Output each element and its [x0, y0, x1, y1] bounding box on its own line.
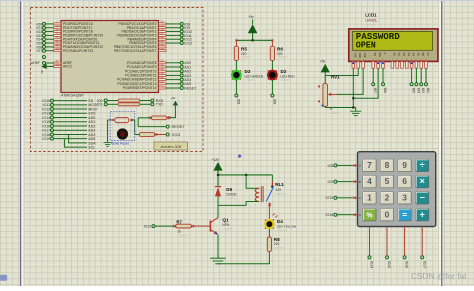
svg-text:RS: RS: [373, 53, 376, 57]
svg-text:<TEXT>: <TEXT>: [178, 234, 189, 238]
svg-text:RV1: RV1: [331, 75, 340, 80]
svg-text:<TEXT>: <TEXT>: [365, 23, 376, 27]
svg-text:Q1: Q1: [222, 217, 229, 222]
svg-text:<TEXT>: <TEXT>: [275, 192, 286, 196]
svg-text:8: 8: [385, 160, 390, 170]
svg-text:1k: 1k: [329, 107, 333, 111]
svg-text:÷: ÷: [420, 160, 425, 170]
svg-text:D3: D3: [245, 69, 251, 74]
svg-text:IO7: IO7: [373, 88, 377, 94]
svg-text:IO7: IO7: [37, 49, 43, 53]
svg-text:D2: D2: [281, 69, 287, 74]
svg-text:R6: R6: [277, 46, 283, 51]
svg-text:CSDN @for fat: CSDN @for fat: [411, 271, 467, 281]
svg-text:RW: RW: [378, 53, 381, 58]
svg-text:+5v: +5v: [320, 59, 326, 63]
svg-text:+12V: +12V: [212, 158, 220, 162]
svg-text:IO9: IO9: [237, 99, 241, 105]
svg-text:IO18: IO18: [326, 213, 334, 217]
svg-text:<TEXT>: <TEXT>: [281, 78, 292, 82]
svg-text:AVCC: AVCC: [63, 64, 73, 68]
svg-text:IO2: IO2: [426, 88, 430, 94]
svg-text:<TEXT>: <TEXT>: [274, 246, 285, 250]
svg-text:TXD: TXD: [156, 103, 164, 107]
svg-text:4: 4: [367, 176, 372, 186]
svg-text:C: C: [359, 196, 361, 200]
svg-text:D5: D5: [226, 187, 232, 192]
svg-text:RESET: RESET: [172, 124, 186, 129]
svg-text:PB7/TOSC2/XTAL2/PCINT7: PB7/TOSC2/XTAL2/PCINT7: [114, 49, 157, 53]
svg-text:ATMEGA328P: ATMEGA328P: [61, 94, 84, 98]
svg-text:<TEXT>: <TEXT>: [245, 78, 256, 82]
svg-text:<TEXT>: <TEXT>: [277, 229, 288, 233]
svg-text:VSS: VSS: [353, 53, 356, 58]
svg-text:Arduino 328: Arduino 328: [161, 145, 181, 149]
svg-text:+5v: +5v: [171, 96, 176, 100]
svg-text:6: 6: [402, 176, 407, 186]
svg-text:%: %: [366, 212, 373, 219]
svg-text:1: 1: [367, 192, 372, 202]
svg-text:D4: D4: [277, 219, 283, 224]
svg-text:IO19: IO19: [42, 137, 50, 141]
svg-text:IO13: IO13: [172, 132, 181, 137]
svg-text:RL1: RL1: [275, 182, 284, 187]
svg-text:2: 2: [385, 192, 390, 202]
svg-text:IO5: IO5: [328, 164, 334, 168]
svg-text:IO14: IO14: [370, 261, 374, 268]
svg-text:B: B: [359, 180, 361, 184]
svg-text:VEE: VEE: [363, 53, 366, 58]
svg-text:+5v: +5v: [40, 70, 44, 75]
svg-text:IO3: IO3: [421, 88, 425, 94]
svg-text:IO19: IO19: [326, 196, 334, 200]
svg-text:IO16: IO16: [405, 261, 409, 268]
svg-text:OPEN: OPEN: [356, 40, 376, 51]
svg-text:IO6: IO6: [383, 88, 387, 94]
svg-text:<TEXT>: <TEXT>: [226, 196, 237, 200]
svg-text:9: 9: [402, 160, 407, 170]
svg-text:IO5: IO5: [412, 88, 416, 94]
svg-text:0: 0: [385, 209, 390, 219]
svg-text:IO13: IO13: [184, 41, 192, 45]
svg-text:A: A: [359, 164, 361, 168]
svg-text:5: 5: [385, 176, 390, 186]
svg-text:<TEXT>: <TEXT>: [277, 55, 288, 59]
svg-text:AREF: AREF: [31, 61, 41, 65]
svg-text:+5v: +5v: [248, 15, 254, 19]
svg-text:IO12: IO12: [144, 225, 152, 229]
svg-text:SCL: SCL: [88, 146, 95, 150]
svg-text:<TEXT>: <TEXT>: [222, 227, 233, 231]
svg-text:6Dx6 Reset: 6Dx6 Reset: [112, 141, 129, 145]
svg-text:7: 7: [367, 160, 372, 170]
svg-text:3: 3: [402, 192, 407, 202]
svg-text:=: =: [402, 209, 407, 219]
svg-text:×: ×: [420, 176, 425, 186]
svg-text:RESET: RESET: [184, 86, 197, 90]
svg-text:IO1: IO1: [97, 103, 103, 107]
svg-text:PD7/AIN1/PCINT23: PD7/AIN1/PCINT23: [63, 49, 93, 53]
svg-text:R7: R7: [176, 219, 182, 224]
svg-text:D: D: [359, 213, 361, 217]
svg-text:R8: R8: [274, 237, 280, 242]
svg-text:LCD1: LCD1: [365, 12, 377, 17]
svg-text:IO2: IO2: [328, 180, 334, 184]
svg-text:<TEXT>: <TEXT>: [241, 55, 252, 59]
svg-text:IO15: IO15: [387, 261, 391, 268]
svg-text:+: +: [420, 209, 425, 219]
svg-text:PC6/RESET/PCINT14: PC6/RESET/PCINT14: [123, 86, 157, 90]
svg-text:−: −: [420, 192, 425, 202]
svg-text:VDD: VDD: [358, 53, 361, 58]
svg-text:R5: R5: [241, 46, 247, 51]
svg-text:IO4: IO4: [416, 88, 420, 94]
svg-text:IO17: IO17: [422, 261, 426, 268]
svg-text:<TEXT>: <TEXT>: [330, 111, 341, 115]
svg-text:IO8: IO8: [273, 99, 277, 105]
